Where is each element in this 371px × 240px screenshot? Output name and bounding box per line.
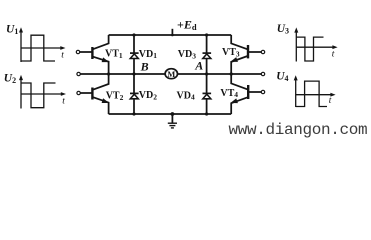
wire node B output lead [80,73,108,75]
terminal node B output circle [77,72,80,75]
U4 vertical axis [295,78,297,107]
diode VD4 branch wire [206,74,208,114]
svg-text:VD4: VD4 [177,90,195,101]
svg-text:VT3: VT3 [222,47,240,58]
svg-text:U2: U2 [4,73,16,86]
wire VT4 base lead [249,91,262,93]
motor M [165,69,177,79]
svg-text:VD2: VD2 [139,90,157,101]
U4 time axis [296,94,334,96]
svg-text:www.diangon.com: www.diangon.com [229,121,368,139]
junction dot ground rail VD4 [205,112,208,115]
diode VD4 symbol [203,93,212,98]
svg-text:B: B [140,60,149,74]
junction dot top rail VD3 [205,33,208,36]
wire top rail +Ed bus [109,34,232,36]
U1 vertical axis [20,31,22,63]
svg-text:M: M [167,70,175,79]
U3 square wave [296,37,323,61]
wire VT4 emitter to ground rail [231,97,248,114]
svg-text:VT4: VT4 [220,88,238,99]
wire VT2 emitter to ground rail [93,97,109,114]
wire VT3 collector to top rail [231,35,247,49]
terminal VT3 base input circle [261,50,264,53]
transistor VT2 base bar [91,88,93,100]
junction dot node B left rail [107,72,110,75]
svg-text:A: A [194,59,203,73]
ground symbol [168,114,177,128]
svg-text:t: t [332,49,335,59]
U3 time axis [296,46,335,48]
terminal VT2 base input circle [77,91,80,94]
transistor VT4 emitter arrow [230,98,238,105]
U3 vertical axis [295,31,297,62]
terminal node A output circle [261,72,264,75]
U3 waveform plot [294,27,337,61]
junction dot ground connection [171,112,175,116]
junction dot node A right rail [230,72,233,75]
U2 square wave [21,83,56,108]
wire VT1 emitter to node B rail [93,57,109,74]
transistor VT1 base bar [91,47,93,59]
wire +Ed supply tick [171,29,173,35]
U2 time axis arrow [61,92,66,96]
U4 waveform plot [294,75,336,107]
diode VD1 branch wire [133,35,135,74]
U4 square wave [296,81,327,106]
diode VD3 symbol [203,53,212,58]
wire VT3 base lead [248,51,261,53]
wire VT3 emitter to node A rail [231,56,247,74]
diode VD2 branch wire [133,74,135,114]
U4 vertical axis arrow [294,75,298,80]
U3 vertical axis arrow [294,27,298,32]
svg-text:VT2: VT2 [106,90,124,101]
junction dot top rail VD1 [132,33,135,36]
U1 square wave [21,35,55,61]
svg-text:U3: U3 [277,23,289,36]
transistor VT3 base bar [247,45,249,58]
wire node A output lead [231,73,261,75]
diode VD1 symbol [130,53,139,58]
U4 time axis arrow [330,93,335,97]
wire VT2 collector to node B [93,74,109,90]
U1 vertical axis arrow [19,27,23,32]
U1 time axis arrow [60,46,65,50]
svg-text:VD3: VD3 [178,49,196,60]
junction dot node A diode branch [205,72,208,75]
wire VT4 collector to node A [231,74,248,90]
svg-text:U4: U4 [276,71,288,84]
svg-text:t: t [61,50,64,60]
svg-text:t: t [329,96,332,106]
transistor VT2 emitter arrow [102,98,110,105]
junction dot node B diode branch [132,72,135,75]
junction dot ground rail VD2 [132,112,135,115]
U1 time axis [21,47,63,49]
svg-text:VT1: VT1 [105,49,123,60]
U2 time axis [21,93,64,95]
U2 waveform plot [19,75,66,109]
terminal VT4 base input circle [261,90,264,93]
diode VD3 branch wire [206,35,208,74]
transistor VT1 emitter arrow [102,57,110,64]
wire node B to node A (motor wire) [109,73,232,75]
svg-text:U1: U1 [6,24,18,37]
U2 vertical axis arrow [19,75,23,80]
U2 vertical axis [20,78,22,109]
wire ground rail [109,113,232,115]
U3 time axis arrow [332,45,337,49]
wire VT2 base lead [80,92,92,94]
wire VT1 base lead [80,51,92,53]
transistor VT4 base bar [247,85,249,99]
svg-text:t: t [62,96,65,106]
terminal VT1 base input circle [76,50,79,53]
wire VT1 collector to top rail [93,35,109,49]
transistor VT3 emitter arrow [230,57,238,64]
svg-text:+Ed: +Ed [177,18,197,32]
diode VD2 symbol [130,93,139,98]
svg-text:VD1: VD1 [139,49,157,60]
junction dot +Ed tap [171,34,174,37]
U1 waveform plot [19,27,66,62]
